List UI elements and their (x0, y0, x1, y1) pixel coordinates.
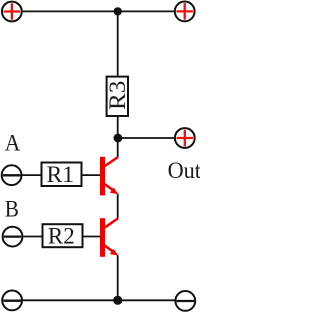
wire rail to R3 (117, 11, 119, 75)
wire bottom rail (23, 299, 175, 301)
terminal T4 input A minus (2, 165, 22, 185)
wire top rail (23, 10, 174, 12)
junction mid (output node) (114, 134, 123, 143)
wire R1 to Q1 base (82, 174, 100, 176)
wire R2 to Q2 base (83, 236, 100, 238)
wire Q2 emitter to bottom rail (117, 255, 119, 300)
transistor Q2 (103, 218, 119, 257)
svg-text:Out: Out (168, 158, 200, 184)
terminal T7 bottom-right minus (175, 291, 195, 311)
wire R3 to mid junction (117, 117, 119, 138)
terminal T2 top-right plus (175, 2, 195, 22)
svg-text:R3: R3 (105, 81, 131, 110)
wire Q1 emitter to Q2 collector (117, 194, 119, 219)
transistor Q1 (103, 157, 119, 196)
svg-text:B: B (5, 197, 19, 223)
wire mid junction to Q1 collector (117, 138, 119, 157)
wire A to R1 (22, 174, 41, 176)
terminal T1 top-left plus (2, 2, 22, 22)
terminal T5 input B minus (3, 227, 23, 247)
junction top (114, 7, 122, 15)
resistor R3 (105, 77, 131, 116)
svg-text:R1: R1 (47, 162, 75, 188)
svg-text:R2: R2 (48, 223, 75, 249)
wire B to R2 (23, 236, 42, 238)
terminal T3 Out plus (175, 128, 195, 148)
resistor R1 (42, 162, 82, 188)
resistor R2 (43, 223, 83, 249)
wire node to Out terminal (118, 137, 174, 139)
terminal T6 bottom-left minus (2, 291, 22, 311)
junction bottom (113, 296, 122, 305)
svg-text:A: A (5, 130, 21, 156)
